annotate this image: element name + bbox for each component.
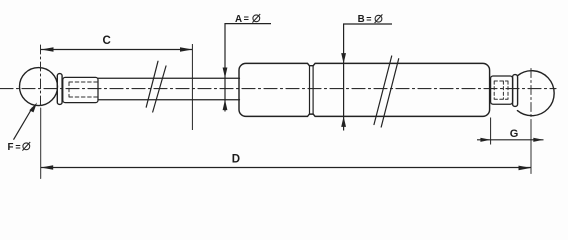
right block thread hidden lines xyxy=(494,81,508,99)
svg-text:G: G xyxy=(510,128,519,140)
label B = dia, leader with arrows on cylinder xyxy=(341,24,392,131)
svg-text:D: D xyxy=(232,154,240,166)
label A = dia, leader with arrows on rod xyxy=(223,24,271,112)
svg-text:=: = xyxy=(15,142,20,152)
svg-text:B: B xyxy=(358,14,365,25)
left block thread hidden lines xyxy=(69,82,98,97)
cylinder body (with crimp groove notches) xyxy=(239,63,490,116)
svg-text:A: A xyxy=(235,14,242,25)
svg-text:=: = xyxy=(244,14,249,24)
svg-text:F: F xyxy=(8,142,14,153)
cylinder crimp ring xyxy=(310,66,314,114)
rod break symbol xyxy=(146,61,166,112)
ball stud F1 (left) xyxy=(20,68,58,106)
dimension C xyxy=(41,44,193,130)
piston rod xyxy=(98,78,240,100)
left eyelet block xyxy=(63,77,98,102)
centerline xyxy=(0,88,556,90)
right eyelet block xyxy=(491,76,513,104)
label F = dia, leader to left ball xyxy=(14,103,38,140)
ball stud G1 (right) xyxy=(517,71,554,116)
left socket cap xyxy=(57,74,62,105)
cylinder break symbol xyxy=(374,56,399,127)
left ball vertical centerline (C/D extension) xyxy=(40,45,42,108)
dimension G xyxy=(477,118,544,145)
svg-text:=: = xyxy=(366,14,371,24)
right ball vertical centerline (D/G extension) xyxy=(530,69,532,121)
dimension D xyxy=(41,165,531,170)
right socket cap xyxy=(513,75,518,107)
svg-text:C: C xyxy=(103,35,111,47)
